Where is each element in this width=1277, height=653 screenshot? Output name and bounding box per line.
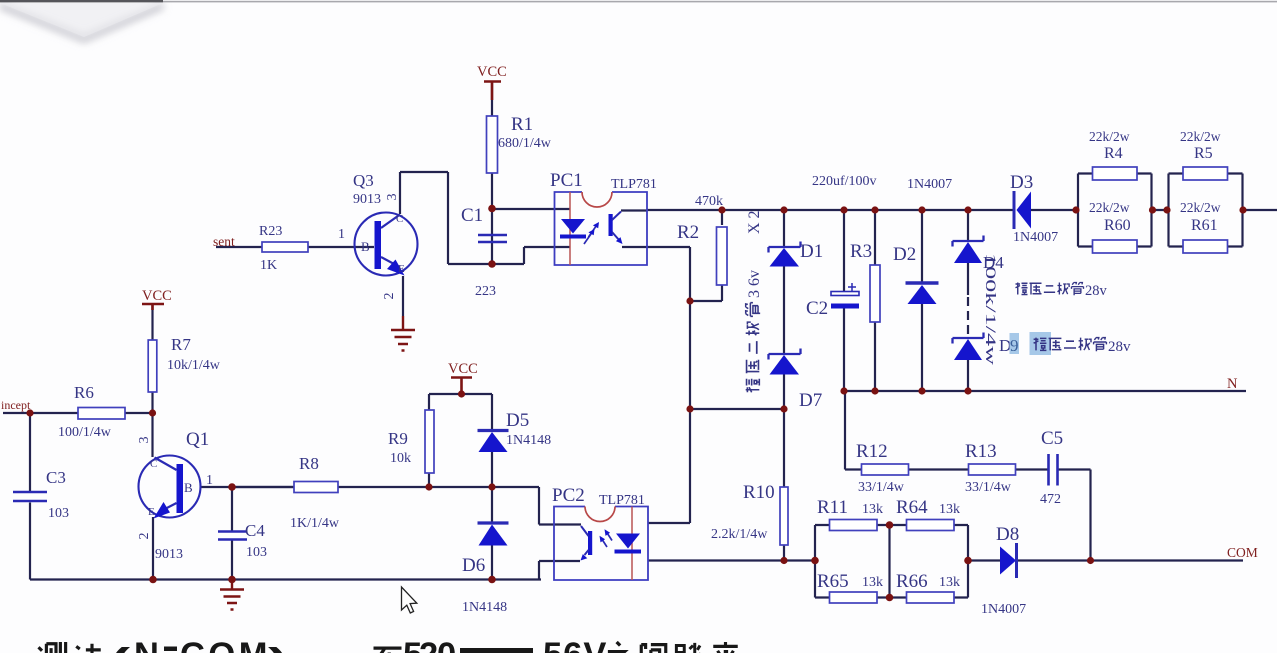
svg-text:9013: 9013 (155, 547, 183, 562)
svg-text:9013: 9013 (353, 192, 381, 207)
svg-text:D2: D2 (893, 244, 916, 265)
svg-text:R9: R9 (388, 429, 408, 448)
svg-text:100k/1/4w: 100k/1/4w (982, 253, 998, 365)
svg-text:VCC: VCC (448, 361, 478, 377)
svg-text:1N4148: 1N4148 (462, 600, 507, 615)
svg-text:sent: sent (213, 234, 235, 249)
svg-text:R11: R11 (817, 497, 848, 518)
svg-text:C: C (396, 213, 403, 225)
svg-text:3: 3 (385, 194, 400, 201)
svg-text:13k: 13k (939, 575, 960, 590)
svg-text:2: 2 (382, 293, 397, 300)
svg-text:13k: 13k (939, 502, 960, 517)
svg-text:1N4007: 1N4007 (981, 602, 1026, 617)
svg-text:680/1/4w: 680/1/4w (498, 136, 552, 151)
svg-text:103: 103 (246, 545, 267, 560)
svg-text:D1: D1 (800, 241, 823, 262)
svg-text:13k: 13k (862, 575, 883, 590)
svg-text:28v: 28v (1085, 283, 1108, 299)
svg-text:D5: D5 (506, 410, 529, 431)
svg-text:22k/2w: 22k/2w (1180, 129, 1221, 144)
svg-text:22k/2w: 22k/2w (1180, 200, 1221, 215)
svg-text:B: B (361, 239, 370, 254)
svg-text:incept: incept (1, 398, 31, 412)
svg-text:1N4007: 1N4007 (1013, 230, 1058, 245)
svg-text:N: N (134, 636, 159, 653)
svg-text:C4: C4 (245, 521, 265, 540)
svg-text:1N4148: 1N4148 (506, 433, 551, 448)
svg-text:R3: R3 (850, 241, 872, 262)
svg-text:1N4007: 1N4007 (907, 177, 952, 192)
svg-text:E: E (148, 506, 155, 518)
svg-text:13k: 13k (862, 502, 883, 517)
svg-text:1K/1/4w: 1K/1/4w (290, 516, 340, 531)
svg-text:R8: R8 (299, 454, 319, 473)
svg-text:R66: R66 (896, 571, 928, 592)
svg-text:D8: D8 (996, 524, 1019, 545)
svg-text:R13: R13 (965, 441, 997, 462)
svg-text:472: 472 (1040, 492, 1061, 507)
svg-text:C: C (150, 458, 157, 470)
svg-text:100/1/4w: 100/1/4w (58, 425, 112, 440)
svg-text:B: B (184, 480, 193, 495)
svg-text:C5: C5 (1041, 428, 1063, 449)
svg-text:0: 0 (437, 636, 456, 653)
svg-text:R1: R1 (511, 114, 533, 135)
svg-text:): ) (268, 641, 288, 653)
svg-text:22k/2w: 22k/2w (1089, 129, 1130, 144)
svg-text:R60: R60 (1104, 217, 1131, 234)
svg-text:TLP781: TLP781 (611, 177, 657, 192)
svg-text:X 2: X 2 (746, 210, 763, 234)
svg-text:33/1/4w: 33/1/4w (858, 480, 905, 495)
svg-text:E: E (398, 263, 405, 275)
svg-text:VCC: VCC (142, 288, 172, 304)
svg-text:1: 1 (338, 227, 345, 242)
svg-text:VCC: VCC (477, 64, 507, 80)
svg-text:R65: R65 (817, 571, 849, 592)
svg-text:9: 9 (1010, 336, 1019, 355)
svg-text:3 6v: 3 6v (746, 270, 763, 298)
svg-text:3: 3 (137, 437, 152, 444)
svg-text:R7: R7 (171, 335, 191, 354)
svg-text:D3: D3 (1010, 172, 1033, 193)
svg-text:R10: R10 (743, 482, 775, 503)
svg-text:D6: D6 (462, 555, 485, 576)
svg-text:1K: 1K (260, 258, 277, 273)
svg-text:PC2: PC2 (552, 485, 585, 506)
svg-text:2: 2 (137, 533, 152, 540)
svg-text:103: 103 (48, 506, 69, 521)
svg-text:220uf/100v: 220uf/100v (812, 174, 877, 189)
svg-text:Q3: Q3 (353, 171, 374, 190)
svg-text:COM: COM (1227, 545, 1258, 560)
svg-text:R61: R61 (1191, 217, 1218, 234)
svg-text:C2: C2 (806, 298, 828, 319)
svg-text:R12: R12 (856, 441, 888, 462)
svg-text:R2: R2 (677, 222, 699, 243)
svg-text:R64: R64 (896, 497, 928, 518)
svg-text:2.2k/1/4w: 2.2k/1/4w (711, 527, 768, 542)
svg-text:TLP781: TLP781 (599, 493, 645, 508)
svg-text:COM: COM (180, 636, 271, 653)
svg-text:2: 2 (419, 636, 438, 653)
svg-text:(: ( (110, 641, 131, 653)
svg-text:PC1: PC1 (550, 170, 583, 191)
svg-text:R5: R5 (1194, 145, 1213, 162)
svg-text:10k: 10k (390, 451, 411, 466)
svg-text:C3: C3 (46, 468, 66, 487)
svg-text:D7: D7 (799, 390, 822, 411)
svg-text:223: 223 (475, 284, 496, 299)
svg-text:R23: R23 (259, 224, 282, 239)
svg-text:N: N (1227, 376, 1238, 392)
svg-text:470k: 470k (695, 194, 723, 209)
svg-text:Q1: Q1 (186, 429, 209, 450)
svg-text:22k/2w: 22k/2w (1089, 200, 1130, 215)
svg-text:56V: 56V (543, 636, 607, 653)
svg-text:1: 1 (206, 473, 213, 488)
svg-text:C1: C1 (461, 205, 483, 226)
svg-text:33/1/4w: 33/1/4w (965, 480, 1012, 495)
svg-text:10k/1/4w: 10k/1/4w (167, 358, 221, 373)
svg-text:R4: R4 (1104, 145, 1123, 162)
svg-text:28v: 28v (1108, 339, 1131, 355)
svg-text:R6: R6 (74, 383, 94, 402)
